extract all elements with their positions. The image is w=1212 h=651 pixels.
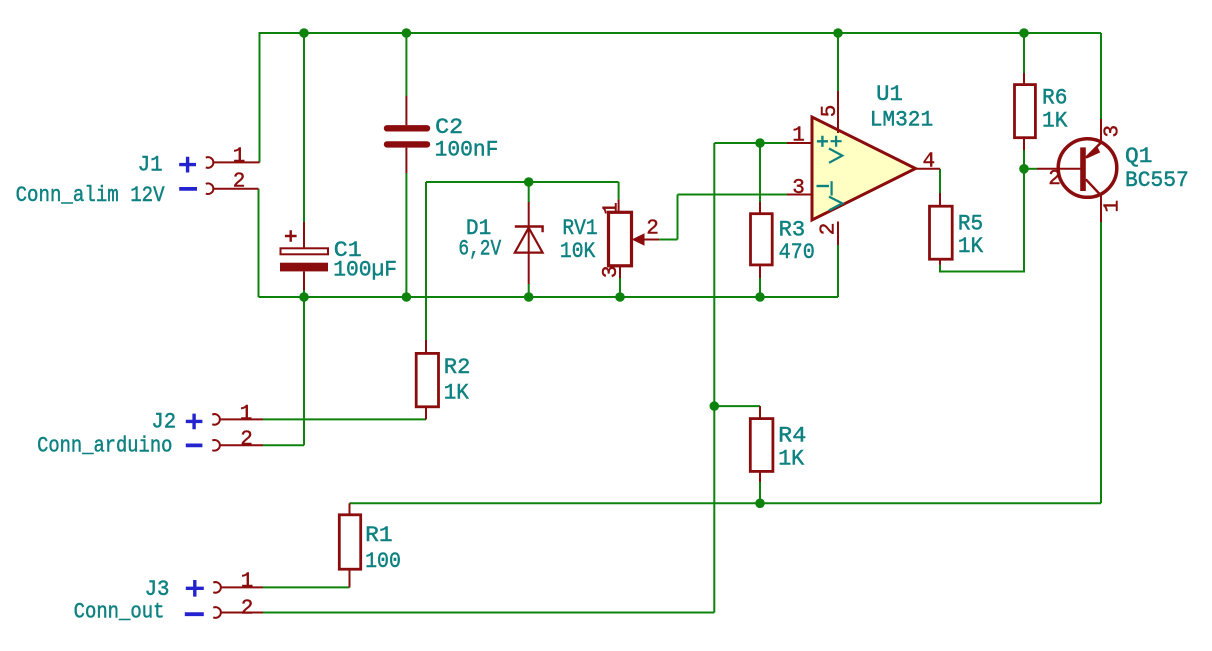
pin 2 lead J3 — [221, 612, 263, 614]
resistor R5 — [930, 193, 984, 265]
plus mark J1 — [179, 157, 196, 173]
Q1 collector pin — [1100, 196, 1102, 223]
wire C2 top branch — [405, 33, 407, 96]
U1 pin1 lead — [787, 142, 812, 144]
Q1 emitter arrow — [1087, 146, 1101, 159]
wire wiper riser — [677, 195, 679, 240]
svg-text:100µF: 100µF — [333, 258, 397, 283]
svg-text:RV1: RV1 — [562, 216, 597, 241]
R3 bottom lead — [759, 265, 761, 278]
U1 minus input mark — [817, 185, 830, 187]
pin hook J1-1 — [206, 157, 214, 168]
C2 bottom lead — [405, 148, 407, 173]
wire R3 top branch — [759, 143, 761, 202]
D1 lead — [528, 202, 530, 284]
svg-text:1: 1 — [1102, 200, 1125, 213]
U1 pin4 lead — [916, 168, 941, 170]
svg-text:5: 5 — [819, 105, 842, 118]
resistor R4 — [750, 406, 806, 482]
svg-text:1K: 1K — [958, 234, 984, 259]
wire RV1 bottom — [619, 278, 621, 297]
U1 pin5 lead — [837, 91, 839, 133]
wire R4 top corner — [714, 405, 760, 407]
wire left drop to J1 pin1 — [259, 33, 261, 162]
svg-text:2: 2 — [233, 171, 246, 194]
wire to op-amp pin3 — [678, 194, 788, 196]
wire RV1 top — [618, 182, 620, 199]
pin hook J2-2 — [212, 440, 220, 451]
connector J2 — [37, 403, 263, 459]
svg-text:U1: U1 — [876, 82, 903, 107]
svg-text:BC557: BC557 — [1125, 168, 1189, 193]
wire op-amp out corner — [939, 169, 941, 193]
svg-text:1K: 1K — [444, 381, 470, 406]
R6 bottom lead — [1023, 138, 1025, 150]
R4 top lead — [759, 406, 761, 419]
svg-text:Conn_alim 12V: Conn_alim 12V — [16, 183, 166, 208]
pin 1 lead J3 — [221, 586, 263, 588]
R3 top lead — [759, 202, 761, 214]
junction top R6 — [1019, 28, 1029, 38]
RV1 wiper shaft — [644, 239, 659, 241]
pin 2 lead J1 — [213, 188, 259, 190]
C1 top plate — [281, 248, 329, 254]
svg-text:1K: 1K — [778, 447, 805, 472]
U1 V+ label — [831, 136, 842, 147]
resistor R2 — [416, 340, 470, 419]
svg-text:J2: J2 — [151, 410, 176, 435]
R5 top lead — [939, 193, 941, 206]
wire R6 bottom — [1023, 150, 1025, 169]
junction rail R3 — [755, 292, 765, 302]
svg-text:4: 4 — [922, 150, 935, 173]
zener diode D1 — [458, 202, 542, 284]
junction rail RV1 — [615, 292, 625, 302]
junction R4 top — [710, 401, 720, 411]
C1 top lead — [303, 222, 305, 248]
wire RV1 wiper — [659, 239, 677, 241]
wire C2 bottom branch — [405, 173, 407, 297]
R5 bottom lead — [939, 259, 941, 265]
wire op-amp pin2 to rail — [837, 245, 839, 297]
svg-text:Q1: Q1 — [1125, 144, 1153, 169]
R2 bottom lead — [425, 407, 427, 420]
svg-text:1: 1 — [240, 403, 253, 426]
svg-text:6,2V: 6,2V — [458, 237, 501, 262]
RV1 wiper arrow — [632, 233, 645, 246]
wire J1 pin2 down — [258, 189, 260, 297]
R5 body — [930, 206, 953, 259]
svg-text:3: 3 — [1102, 125, 1125, 138]
svg-text:R4: R4 — [778, 423, 806, 448]
C2 top plate — [387, 125, 427, 131]
R1 body — [339, 515, 360, 569]
svg-text:10K: 10K — [560, 239, 596, 264]
svg-text:R5: R5 — [958, 211, 983, 236]
wire R4 bottom — [759, 482, 761, 503]
junction top C1 — [299, 28, 309, 38]
wire J2 pin2 — [263, 444, 304, 446]
minus mark J1 — [179, 187, 197, 191]
wire Q1 collector down — [1100, 222, 1102, 503]
Q1 emitter diagonal — [1086, 143, 1101, 158]
svg-text:Conn_arduino: Conn_arduino — [37, 434, 172, 459]
pin hook J3-1 — [213, 582, 221, 593]
svg-text:R3: R3 — [779, 218, 806, 243]
svg-text:1: 1 — [792, 125, 805, 148]
junction pin1 R3 — [755, 138, 765, 148]
svg-text:100nF: 100nF — [435, 137, 499, 162]
svg-text:C2: C2 — [435, 115, 463, 140]
pin 1 lead J1 — [213, 161, 260, 163]
wire Q1 emitter top — [1100, 33, 1102, 119]
RV1 body — [609, 212, 632, 265]
R4 body — [750, 419, 773, 472]
svg-text:1: 1 — [241, 571, 254, 594]
U1 body triangle — [812, 117, 916, 220]
wire D1 top — [528, 182, 530, 202]
junction rail D1 — [524, 292, 534, 302]
junction island D1 — [524, 177, 534, 187]
svg-text:3: 3 — [600, 265, 623, 278]
R6 top lead — [1023, 73, 1025, 85]
svg-text:470: 470 — [779, 240, 815, 265]
svg-text:2: 2 — [818, 223, 841, 236]
junction top pin5 — [833, 28, 843, 38]
pin 1 lead J2 — [220, 418, 263, 420]
junction base R6 — [1019, 164, 1029, 174]
Q1 base bar — [1080, 147, 1086, 191]
svg-text:1: 1 — [601, 202, 624, 215]
wire op-amp pin5 drop — [837, 33, 839, 91]
R1 top lead — [349, 503, 351, 515]
resistor R1 — [339, 503, 401, 587]
R3 body — [751, 214, 773, 265]
R6 body — [1015, 85, 1036, 138]
plus mark J3 — [186, 580, 204, 597]
Q1 collector diagonal — [1086, 179, 1101, 195]
R4 bottom lead — [759, 471, 761, 482]
wire J3 pin2 row — [263, 612, 714, 614]
svg-text:1K: 1K — [1042, 108, 1068, 133]
U1 pin3 lead — [787, 194, 812, 196]
svg-text:2: 2 — [241, 598, 254, 621]
svg-text:1: 1 — [233, 146, 246, 169]
D1 cathode bar — [515, 227, 543, 233]
C1 bottom plate — [280, 263, 328, 272]
wire bottom rail — [259, 296, 839, 298]
D1 triangle — [515, 228, 543, 253]
svg-text:LM321: LM321 — [870, 107, 934, 132]
pin hook J1-2 — [206, 183, 214, 194]
pin hook J3-2 — [213, 607, 221, 618]
transistor Q1 — [1037, 119, 1189, 222]
minus mark J2 — [186, 443, 203, 447]
wire J3 pin1 to R1 — [263, 586, 350, 588]
wire long vertical — [713, 143, 715, 613]
junction top C2 — [402, 28, 412, 38]
C1 polarity plus — [285, 230, 297, 241]
R1 bottom lead — [349, 569, 351, 587]
R2 top lead — [425, 340, 427, 353]
wire R5 bottom L to base junction — [940, 169, 1024, 272]
minus mark J3 — [185, 612, 204, 616]
pin 2 lead J2 — [220, 444, 263, 446]
wire D1 bottom — [528, 284, 530, 297]
wire C1 bottom to J2 pin2 — [303, 290, 305, 445]
wire Q1 base stub — [1024, 168, 1037, 170]
svg-text:2: 2 — [240, 429, 253, 452]
RV1 bottom lead — [619, 266, 621, 278]
wire R6 top — [1023, 33, 1025, 73]
svg-text:R1: R1 — [365, 523, 393, 548]
junction rail C2 — [402, 292, 412, 302]
svg-text:2: 2 — [1048, 168, 1061, 191]
svg-text:100: 100 — [365, 549, 401, 574]
resistor R3 — [751, 202, 815, 278]
connector J3 — [74, 571, 263, 625]
C2 bottom plate — [387, 141, 427, 147]
R2 body — [416, 353, 438, 406]
svg-text:R6: R6 — [1042, 85, 1067, 110]
potentiometer RV1 — [560, 199, 659, 278]
RV1 top lead — [618, 199, 620, 212]
svg-text:R2: R2 — [444, 355, 471, 380]
op-amp U1 — [787, 82, 940, 245]
wire bottom long horizontal — [350, 502, 1102, 504]
U1 V- label — [830, 181, 832, 195]
wire island to R2 — [425, 182, 427, 340]
svg-text:3: 3 — [792, 177, 805, 200]
svg-text:J1: J1 — [138, 153, 163, 178]
C2 top lead — [405, 96, 407, 125]
Q1 body circle — [1058, 139, 1117, 198]
wire J2 pin1 to R2 — [263, 418, 426, 420]
plus mark J2 — [186, 414, 203, 430]
wire C1 top branch — [303, 33, 305, 222]
C1 bottom lead — [303, 272, 305, 291]
svg-text:2: 2 — [646, 218, 659, 241]
connector J1 — [16, 146, 260, 209]
pin hook J2-1 — [212, 414, 220, 425]
U1 plus input mark — [817, 136, 828, 147]
wire island top rail — [426, 181, 619, 183]
junction R4 bottom — [755, 499, 765, 509]
wire R3 bottom — [759, 278, 761, 297]
Q1 emitter pin — [1100, 119, 1102, 143]
junction rail C1 — [299, 292, 309, 302]
capacitor C1 — [280, 222, 397, 290]
wire top rail — [259, 32, 1102, 34]
wire op-amp pin1 — [714, 142, 787, 144]
capacitor C2 — [387, 96, 498, 173]
U1 pin2 lead — [837, 222, 839, 246]
svg-text:Conn_out: Conn_out — [74, 599, 165, 624]
Q1 base lead — [1037, 168, 1081, 170]
resistor R6 — [1015, 73, 1069, 150]
